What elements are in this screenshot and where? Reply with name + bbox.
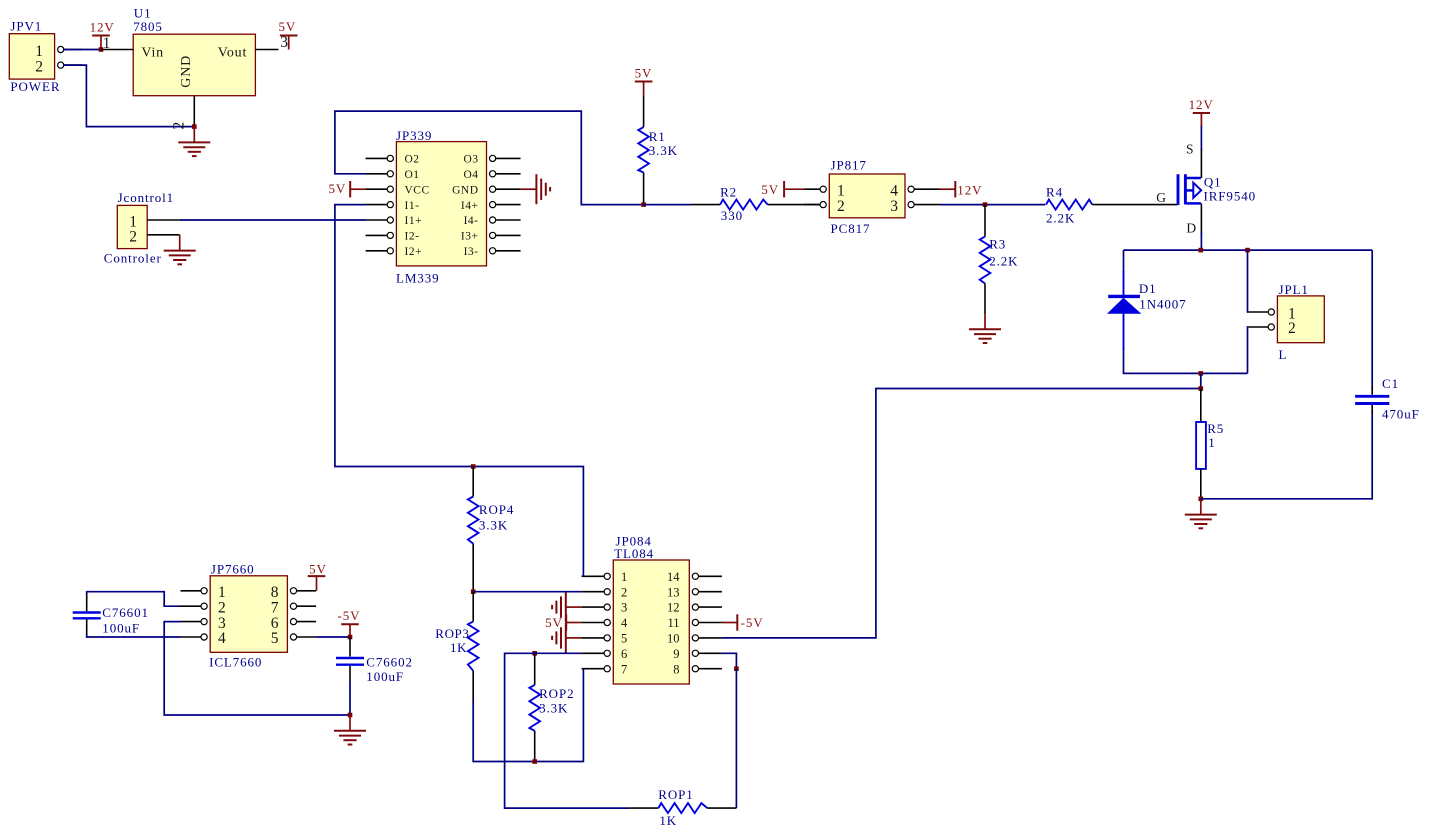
svg-text:14: 14 (667, 570, 680, 584)
junction ROP2 bottom (532, 759, 537, 764)
IC JP817 PC817 body (829, 174, 905, 218)
label C1 (1382, 376, 1399, 391)
power -5V at TL084 pin 11 (722, 614, 764, 630)
pin TL084.10 (692, 635, 722, 641)
svg-text:C76601: C76601 (102, 605, 149, 620)
ground at R3 bottom (969, 314, 1001, 344)
junction R1 bottom node (641, 202, 646, 207)
label ICL7660 (209, 654, 262, 669)
power +5V at U1 output (279, 19, 298, 49)
junction -5V node (348, 635, 353, 640)
power -5V at JP7660 pin 5 (338, 608, 361, 637)
svg-text:3.3K: 3.3K (479, 518, 508, 533)
wire JP7660 pin 3 to ground rail (164, 622, 350, 715)
pin JP7660.3 (181, 619, 208, 625)
label TL084 (614, 546, 654, 561)
pin JP339 right O4 (490, 171, 521, 177)
svg-text:1: 1 (1208, 435, 1215, 450)
junction JPL1 top loop (1245, 248, 1250, 253)
label ROP2 (539, 686, 574, 701)
wire C76602 to ground node (349, 681, 351, 715)
pin JP7660.8 (290, 588, 316, 594)
wire JP817.3 to R3/R4 node (940, 204, 1045, 206)
label JPV1 designator (10, 19, 42, 34)
svg-text:10: 10 (667, 632, 680, 646)
svg-text:5V: 5V (279, 19, 297, 34)
label POWER (10, 79, 60, 94)
wire Jcontrol1.1 to JP339 I1+ (180, 219, 366, 221)
svg-text:3: 3 (621, 601, 627, 615)
wire R5 bottom to C1 (1201, 412, 1372, 499)
svg-text:PC817: PC817 (831, 221, 871, 236)
resistor R5 1 (shunt) (1196, 389, 1206, 499)
wire top loop to C1 (1371, 250, 1373, 388)
label R5 value 1 (1208, 435, 1215, 450)
svg-text:9: 9 (673, 647, 679, 661)
label R4 (1046, 185, 1063, 200)
pin TL084.2 (582, 589, 611, 595)
label ROP3 (435, 626, 469, 641)
svg-text:Vout: Vout (218, 45, 247, 60)
svg-text:Jcontrol1: Jcontrol1 (118, 190, 174, 205)
connector JPV1 (9, 34, 54, 79)
capacitor C76602 100uF (336, 637, 364, 682)
svg-text:R2: R2 (720, 184, 737, 199)
label JP084 designator (616, 534, 652, 549)
resistor ROP3 1K (468, 592, 479, 700)
svg-text:JP7660: JP7660 (211, 561, 255, 576)
wire TL084 pin9 to pin8 node (722, 653, 737, 668)
pin TL084.5 (582, 635, 611, 641)
svg-text:1N4007: 1N4007 (1139, 297, 1186, 312)
label R2 (720, 184, 737, 199)
label R5 (1207, 421, 1224, 436)
pin TL084.4 (582, 619, 611, 625)
label L (1279, 347, 1288, 362)
diode D1 1N4007 (1108, 271, 1140, 350)
wire ROP3 bottom to TL084 pin7 (473, 669, 583, 762)
junction U1 GND node (192, 124, 197, 129)
capacitor C76601 100uF (73, 594, 101, 635)
svg-text:3.3K: 3.3K (539, 700, 568, 715)
label ROP4 (479, 502, 514, 517)
pin JP339 right I3- (490, 248, 521, 254)
svg-text:5V: 5V (761, 182, 779, 197)
svg-text:R3: R3 (989, 237, 1006, 252)
pin JP339 right GND (490, 186, 521, 192)
svg-text:I1+: I1+ (405, 215, 423, 227)
svg-text:12V: 12V (1189, 97, 1214, 112)
svg-text:13: 13 (667, 585, 680, 599)
resistor ROP2 3.3K (529, 653, 540, 761)
pin JP817.2 (804, 202, 826, 208)
pin Jcontrol1.2 (147, 234, 180, 236)
svg-text:I2+: I2+ (405, 246, 423, 258)
pin Jcontrol1.1 (147, 219, 180, 221)
pin TL084.7 (582, 666, 611, 672)
svg-text:5V: 5V (635, 65, 653, 80)
svg-text:C1: C1 (1382, 376, 1399, 391)
wire load node vertical (1200, 373, 1202, 392)
svg-text:1: 1 (103, 35, 111, 52)
svg-text:R5: R5 (1207, 421, 1224, 436)
wire JP339 I1- to ROP4 top (335, 205, 584, 577)
pin TL084.14 (692, 573, 722, 579)
label Q1 value IRF9540 (1204, 188, 1257, 203)
ground at TL084 pin 5 (552, 623, 582, 653)
label C76601 (102, 605, 149, 620)
svg-text:5V: 5V (309, 561, 327, 576)
IC JP7660 ICL7660 body (210, 576, 287, 653)
svg-text:2: 2 (35, 59, 43, 76)
svg-text:ROP3: ROP3 (435, 626, 469, 641)
pin JP7660.2 (181, 603, 208, 609)
svg-text:O2: O2 (405, 154, 420, 166)
wire D1 to bottom loop (1124, 349, 1201, 373)
svg-text:7805: 7805 (133, 19, 163, 34)
label JP339 designator (396, 128, 432, 143)
pin JP339 right I3+ (490, 232, 521, 238)
label D1 (1139, 281, 1157, 296)
junction TL084 pin8 node (734, 666, 739, 671)
pin JP7660.6 (290, 619, 316, 625)
svg-text:3.3K: 3.3K (649, 143, 678, 158)
wire JPV1.2 to U1 GND node (63, 65, 194, 127)
junction ROP4 top (471, 464, 476, 469)
power 5V at R1 (635, 65, 653, 95)
pin TL084.13 (692, 589, 722, 595)
ground at C76602 (334, 715, 366, 745)
svg-text:I3+: I3+ (461, 231, 479, 243)
svg-text:1K: 1K (450, 640, 467, 655)
wire bottom loop (1201, 372, 1248, 374)
power 12V at JP817 pin 4 (940, 181, 982, 198)
svg-text:-5V: -5V (741, 615, 764, 630)
label JP817 designator (831, 158, 867, 173)
pin TL084.11 (692, 619, 722, 625)
ground at TL084 pin 3 (552, 592, 582, 622)
wire C76601 top to JP7660 pin 2 (87, 592, 181, 607)
svg-text:GND: GND (179, 55, 194, 88)
wire JPV1.1 to 12V node (63, 49, 101, 51)
svg-text:R4: R4 (1046, 185, 1063, 200)
svg-text:D1: D1 (1139, 281, 1157, 296)
junction U1 Vin node (99, 47, 104, 52)
pin JP339 left O2 (366, 155, 394, 161)
wire top loop to D1 (1123, 250, 1125, 272)
power +12V at U1 input (90, 20, 115, 50)
junction ground node (348, 713, 353, 718)
pin JP339 right O3 (490, 155, 521, 161)
svg-text:Controler: Controler (104, 250, 162, 265)
pin JP339 right I4+ (490, 202, 521, 208)
resistor R4 2.2K (1046, 200, 1177, 210)
svg-text:JPL1: JPL1 (1279, 282, 1309, 297)
svg-text:1: 1 (621, 570, 627, 584)
svg-text:O3: O3 (463, 154, 478, 166)
wire TL084 pin10 to load node (722, 389, 1201, 638)
svg-text:5: 5 (621, 632, 627, 646)
svg-text:R1: R1 (649, 129, 666, 144)
junction ROP4 ROP3 pin2 (471, 589, 476, 594)
resistor R3 2.2K (980, 205, 991, 314)
svg-text:ICL7660: ICL7660 (209, 654, 262, 669)
pin TL084.8 (692, 666, 722, 672)
pin U1.1 Vin (101, 35, 133, 52)
resistor R1 3.3K (638, 96, 649, 205)
label R1 (649, 129, 666, 144)
label U1 designator (134, 6, 152, 21)
resistor ROP4 3.3K (468, 467, 479, 592)
svg-text:I4-: I4- (464, 215, 479, 227)
label JPL1 designator (1279, 282, 1309, 297)
svg-text:JPV1: JPV1 (10, 19, 42, 34)
power 12V at Q1 source (1189, 97, 1214, 127)
label R3 (989, 237, 1006, 252)
svg-text:D: D (1186, 221, 1196, 236)
svg-text:ROP2: ROP2 (539, 686, 574, 701)
pin JP7660.5 (290, 634, 316, 640)
svg-text:GND: GND (452, 184, 478, 196)
svg-text:I2-: I2- (405, 231, 420, 243)
label C76602 (366, 654, 413, 669)
ground at U1 pin 2 (178, 127, 210, 157)
pin JP339 left I2+ (366, 248, 394, 254)
svg-text:7: 7 (621, 662, 627, 676)
pin JP339 left O1 (366, 171, 394, 177)
wire 12V to Q1 source (1200, 126, 1202, 150)
junction bottom loop R5 (1199, 371, 1204, 376)
label ROP1 (658, 787, 693, 802)
svg-text:3: 3 (890, 198, 898, 215)
wire top loop D1 JPL1 C1 (1124, 249, 1373, 251)
svg-text:3: 3 (280, 34, 288, 51)
wire pin8 node down to ROP1 (735, 669, 737, 808)
ground at R5 bottom (1185, 499, 1217, 529)
label Q1 designator (1204, 175, 1222, 190)
pin JPL1.1 (1249, 309, 1275, 315)
svg-text:5V: 5V (329, 181, 347, 196)
svg-text:S: S (1186, 142, 1194, 157)
svg-text:12V: 12V (90, 20, 115, 35)
transistor Q1 IRF9540 (1156, 142, 1201, 236)
label Controler (104, 250, 162, 265)
wire Q1 drain to top loop (1200, 232, 1202, 250)
pin JP339 left I1- (366, 202, 394, 208)
svg-text:12V: 12V (957, 183, 982, 198)
pin TL084.3 (582, 604, 611, 610)
wire JPL1.1 to top loop (1248, 250, 1249, 312)
pin TL084.12 (692, 604, 722, 610)
pin JP7660.4 (181, 634, 208, 640)
svg-text:470uF: 470uF (1382, 406, 1420, 421)
svg-text:11: 11 (667, 616, 679, 630)
svg-text:100uF: 100uF (102, 620, 140, 635)
svg-text:IRF9540: IRF9540 (1204, 188, 1257, 203)
label JP7660 designator (211, 561, 255, 576)
pin JPV1.2 (58, 62, 82, 68)
svg-text:JP817: JP817 (831, 158, 867, 173)
ground at Jcontrol1 pin 2 (164, 235, 196, 264)
svg-text:I3-: I3- (464, 246, 479, 258)
svg-text:O1: O1 (405, 169, 420, 181)
label C76601 value 100uF (102, 620, 140, 635)
pin JPL1.2 (1249, 324, 1275, 330)
label R4 value 2.2K (1046, 211, 1075, 226)
svg-text:O4: O4 (463, 169, 478, 181)
connector JPL1 (1277, 296, 1324, 343)
pin JPV1.1 (58, 46, 82, 52)
svg-text:C76602: C76602 (366, 654, 413, 669)
svg-text:ROP4: ROP4 (479, 502, 514, 517)
svg-text:2: 2 (1288, 320, 1296, 337)
pin JP339 left VCC (366, 186, 394, 192)
svg-text:ROP1: ROP1 (658, 787, 693, 802)
junction ROP2 top (532, 651, 537, 656)
svg-text:100uF: 100uF (366, 669, 404, 684)
svg-text:TL084: TL084 (614, 546, 654, 561)
wire divider node to TL084 pin2 (473, 591, 581, 593)
resistor ROP1 1K (629, 803, 736, 813)
regulator U1 7805 body (133, 34, 255, 95)
connector Jcontrol1 (117, 205, 147, 248)
wire R1 node to R2 (644, 204, 691, 206)
svg-text:G: G (1156, 190, 1166, 205)
pin JP339 right I4- (490, 217, 521, 223)
label LM339 (396, 271, 440, 286)
svg-text:LM339: LM339 (396, 271, 440, 286)
junction load node (1199, 386, 1204, 391)
svg-text:-5V: -5V (338, 608, 361, 623)
power 5V at JP817 pin 1 (761, 181, 804, 197)
wire C76601 bottom to JP7660 pin 4 (87, 634, 181, 637)
label C76602 value 100uF (366, 669, 404, 684)
svg-text:L: L (1279, 347, 1288, 362)
junction R3 top node (983, 202, 988, 207)
label C1 value 470uF (1382, 406, 1420, 421)
wire JP7660 pin 5 to -5V node (316, 636, 350, 638)
IC JP339 LM339 body (396, 142, 486, 266)
capacitor C1 470uF (1355, 387, 1389, 413)
svg-text:4: 4 (621, 616, 628, 630)
label ROP3 value 1K (450, 640, 467, 655)
svg-text:2: 2 (171, 122, 188, 130)
svg-text:6: 6 (621, 647, 627, 661)
svg-text:2: 2 (129, 229, 137, 246)
junction drain top loop (1199, 248, 1204, 253)
pin JP339 left I2- (366, 232, 394, 238)
pin U1.2 GND (171, 96, 195, 130)
svg-text:JP339: JP339 (396, 128, 432, 143)
junction R5 bottom (1199, 497, 1204, 502)
wire JP339 O1 to R2 row (335, 111, 644, 205)
pin JP817.1 (804, 186, 826, 192)
pin JP7660.1 (181, 588, 208, 594)
wire JPL1.2 to bottom loop (1248, 327, 1249, 373)
pin JP817.3 (908, 202, 940, 208)
svg-text:12: 12 (667, 601, 680, 615)
pin U1.3 Vout (255, 34, 288, 51)
pin JP7660.7 (290, 603, 316, 609)
label ROP4 value 3.3K (479, 518, 508, 533)
svg-text:1K: 1K (659, 813, 677, 828)
label Jcontrol1 designator (118, 190, 174, 205)
pin TL084.6 (582, 650, 611, 656)
svg-text:330: 330 (721, 208, 743, 223)
svg-text:4: 4 (218, 630, 226, 647)
svg-text:2.2K: 2.2K (1046, 211, 1075, 226)
pin TL084.1 (582, 573, 611, 579)
label PC817 (831, 221, 871, 236)
label ROP1 value 1K (659, 813, 677, 828)
pin TL084.9 (692, 650, 722, 656)
pin JP817.4 (908, 186, 940, 192)
svg-text:2.2K: 2.2K (989, 253, 1018, 268)
svg-text:2: 2 (621, 585, 627, 599)
power 5V at TL084 pin 4 (545, 614, 582, 630)
wire TL084 pin6 to ROP1 (505, 653, 630, 808)
svg-text:8: 8 (673, 662, 679, 676)
power 5V at JP7660 pin 8 (308, 561, 327, 591)
svg-text:Vin: Vin (141, 45, 164, 60)
label U1 value 7805 (133, 19, 163, 34)
svg-text:1: 1 (35, 43, 43, 60)
svg-text:I4+: I4+ (461, 200, 479, 212)
IC JP084 TL084 body (613, 560, 689, 684)
svg-text:2: 2 (837, 198, 845, 215)
svg-text:VCC: VCC (405, 184, 430, 196)
ground at JP339 GND pin (521, 174, 551, 204)
pin JP339 left I1+ (366, 217, 394, 223)
label ROP2 value 3.3K (539, 700, 568, 715)
label R1 value 3.3K (649, 143, 678, 158)
label R2 value 330 (721, 208, 743, 223)
power 5V at JP339 VCC (329, 181, 366, 197)
label D1 value 1N4007 (1139, 297, 1186, 312)
svg-text:5: 5 (271, 630, 279, 647)
svg-text:I1-: I1- (405, 200, 420, 212)
label R3 value 2.2K (989, 253, 1018, 268)
resistor R2 330 (691, 200, 821, 210)
svg-text:POWER: POWER (10, 79, 60, 94)
